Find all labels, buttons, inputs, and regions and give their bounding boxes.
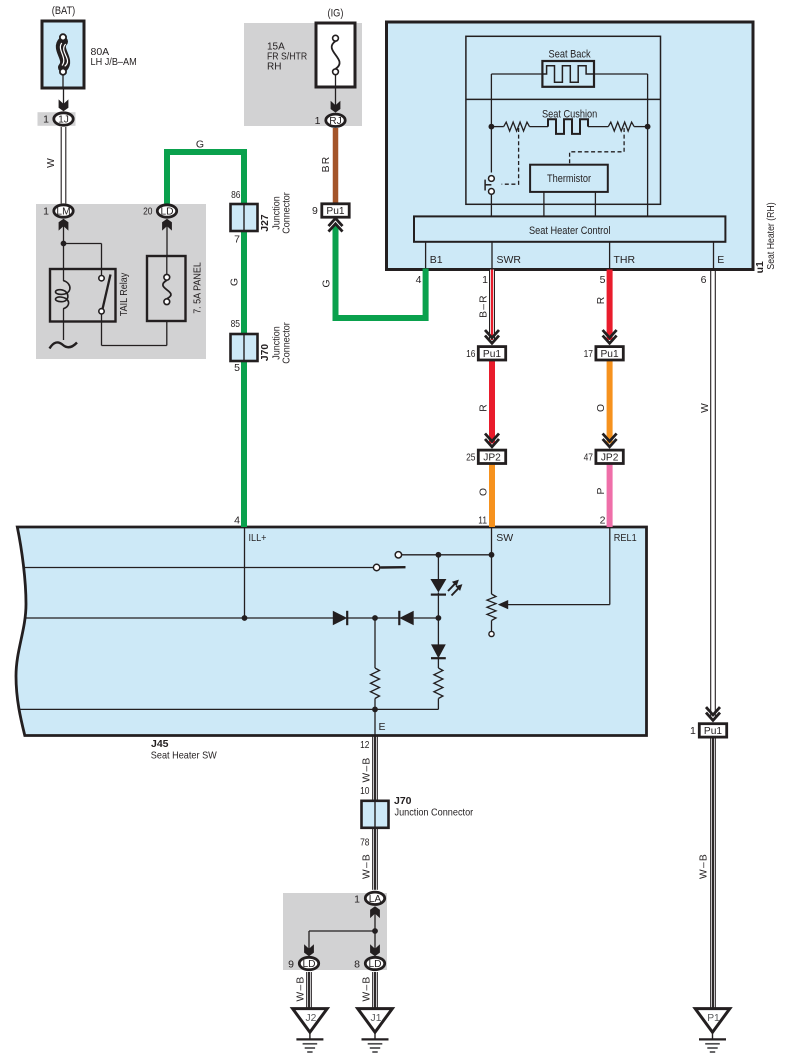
svg-text:5: 5 (234, 362, 240, 374)
svg-text:JP2: JP2 (601, 452, 619, 463)
svg-text:R: R (479, 404, 490, 411)
svg-text:1: 1 (315, 115, 321, 127)
svg-text:u1: u1 (754, 261, 766, 273)
svg-text:REL1: REL1 (614, 532, 637, 544)
svg-text:86: 86 (231, 189, 241, 201)
svg-text:7. 5A PANEL: 7. 5A PANEL (193, 262, 204, 314)
svg-text:1: 1 (354, 893, 360, 905)
svg-text:Seat Heater SW: Seat Heater SW (151, 750, 217, 762)
svg-text:J2: J2 (305, 1013, 316, 1024)
svg-text:J70: J70 (394, 795, 412, 807)
svg-text:LA: LA (369, 894, 382, 905)
svg-text:W–B: W–B (699, 853, 710, 879)
svg-text:W–B: W–B (362, 757, 373, 783)
svg-text:G: G (196, 139, 204, 151)
svg-text:(IG): (IG) (328, 8, 344, 20)
svg-text:O: O (479, 488, 490, 496)
svg-text:Junction Connector: Junction Connector (395, 807, 474, 819)
svg-text:J27: J27 (260, 214, 271, 231)
svg-text:P1: P1 (707, 1013, 720, 1024)
svg-text:B1: B1 (430, 254, 443, 266)
svg-text:11: 11 (478, 515, 487, 527)
svg-text:1: 1 (43, 114, 49, 126)
svg-text:85: 85 (231, 318, 241, 330)
svg-text:9: 9 (288, 958, 294, 970)
svg-text:1: 1 (482, 274, 488, 286)
svg-text:Seat Heater Control: Seat Heater Control (529, 225, 611, 237)
svg-text:TAIL Relay: TAIL Relay (119, 272, 130, 316)
svg-text:LD: LD (368, 959, 381, 970)
svg-text:10: 10 (360, 785, 370, 797)
svg-text:LD: LD (160, 207, 173, 218)
svg-text:J70: J70 (260, 344, 271, 361)
svg-text:THR: THR (614, 254, 636, 266)
svg-text:4: 4 (416, 274, 422, 286)
svg-text:BR: BR (321, 156, 332, 173)
svg-text:1: 1 (43, 206, 49, 218)
svg-text:W–B: W–B (362, 853, 373, 879)
svg-text:LM: LM (56, 207, 70, 218)
svg-text:Pu1: Pu1 (483, 349, 501, 360)
svg-text:LH J/B–AM: LH J/B–AM (91, 56, 137, 68)
svg-text:B–R: B–R (479, 294, 490, 318)
svg-text:R: R (596, 297, 607, 304)
svg-text:SWR: SWR (497, 254, 522, 266)
svg-text:JP2: JP2 (483, 452, 501, 463)
svg-text:1: 1 (690, 725, 696, 737)
svg-text:20: 20 (143, 206, 153, 218)
svg-text:(BAT): (BAT) (52, 5, 75, 17)
svg-text:47: 47 (584, 452, 594, 464)
svg-text:5: 5 (600, 274, 606, 286)
svg-text:O: O (596, 404, 607, 412)
svg-text:G: G (322, 279, 333, 287)
svg-text:8: 8 (354, 958, 360, 970)
svg-text:RH: RH (267, 62, 281, 73)
svg-text:LD: LD (302, 959, 315, 970)
svg-text:2: 2 (600, 515, 606, 527)
svg-text:6: 6 (701, 274, 707, 286)
svg-text:12: 12 (360, 739, 370, 751)
svg-text:ILL+: ILL+ (249, 532, 267, 544)
svg-text:Thermistor: Thermistor (547, 173, 592, 185)
svg-text:Pu1: Pu1 (326, 206, 344, 217)
svg-text:J45: J45 (151, 738, 169, 750)
svg-text:W: W (46, 158, 57, 168)
svg-text:Seat Heater (RH): Seat Heater (RH) (766, 202, 777, 269)
svg-text:SW: SW (496, 532, 513, 544)
svg-text:9: 9 (312, 205, 318, 217)
svg-text:RJ: RJ (329, 116, 341, 127)
svg-text:17: 17 (584, 348, 594, 360)
svg-text:Connector: Connector (281, 322, 292, 364)
svg-text:J1: J1 (371, 1013, 382, 1024)
svg-text:E: E (379, 721, 386, 733)
svg-text:78: 78 (360, 837, 370, 849)
svg-text:P: P (596, 487, 607, 494)
svg-text:W–B: W–B (362, 976, 373, 1002)
svg-text:G: G (230, 278, 241, 286)
svg-text:Connector: Connector (281, 192, 292, 234)
svg-text:Pu1: Pu1 (601, 349, 619, 360)
svg-text:7: 7 (234, 234, 240, 246)
svg-text:Pu1: Pu1 (704, 726, 722, 737)
svg-text:W: W (700, 403, 711, 413)
svg-text:16: 16 (466, 348, 476, 360)
svg-text:4: 4 (234, 515, 240, 527)
svg-text:1J: 1J (58, 115, 69, 126)
svg-text:W–B: W–B (296, 976, 307, 1002)
svg-text:25: 25 (466, 452, 476, 464)
svg-text:E: E (717, 254, 724, 266)
svg-text:Seat Back: Seat Back (549, 49, 592, 61)
